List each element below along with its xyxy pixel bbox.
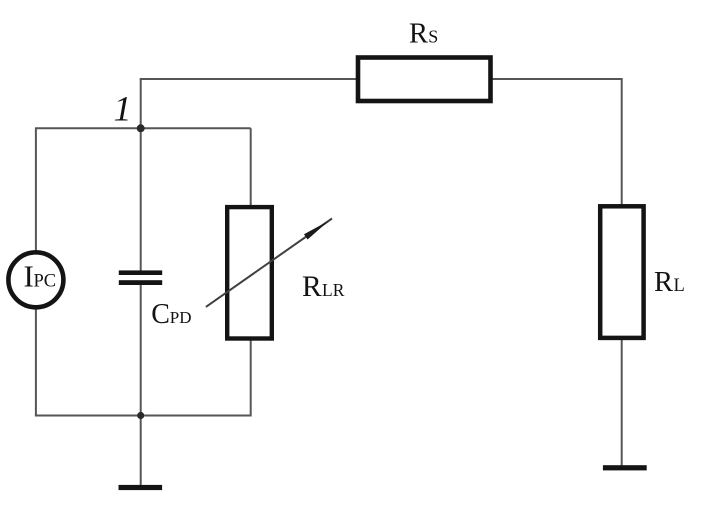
variable resistor RLR body bbox=[227, 207, 272, 338]
svg-text:PC: PC bbox=[34, 272, 57, 292]
wire: top rail left segment to Rs bbox=[140, 78, 357, 80]
wire: RLR branch vertical bottom bbox=[250, 339, 252, 417]
variable resistor RLR arrowhead bbox=[304, 221, 329, 240]
wire: node-1 horizontal rail bbox=[35, 127, 251, 129]
resistor RL body bbox=[600, 206, 643, 338]
svg-text:S: S bbox=[428, 27, 438, 47]
resistor RS body bbox=[358, 58, 491, 102]
svg-text:R: R bbox=[654, 267, 673, 298]
wire: top rail right segment from Rs bbox=[492, 78, 622, 80]
left ground symbol bbox=[119, 485, 163, 490]
wire: middle vertical from capacitor bottom plate to bottom rail bbox=[140, 283, 142, 416]
svg-text:R: R bbox=[409, 19, 428, 50]
wire: middle vertical from bottom rail to left ground bbox=[140, 416, 142, 486]
svg-text:1: 1 bbox=[114, 89, 132, 129]
capacitor CPD bottom plate bbox=[119, 280, 162, 285]
svg-text:LR: LR bbox=[322, 280, 345, 300]
wire: right vertical down to RL bbox=[621, 78, 623, 205]
bottom rail junction dot bbox=[137, 412, 144, 419]
wire: left vertical from node rail to current source top bbox=[35, 128, 37, 251]
node 1 junction dot bbox=[137, 124, 145, 132]
right ground symbol bbox=[603, 465, 647, 470]
capacitor CPD top plate bbox=[119, 270, 162, 275]
svg-text:PD: PD bbox=[170, 308, 192, 327]
svg-text:C: C bbox=[151, 299, 170, 330]
svg-text:I: I bbox=[24, 259, 34, 294]
wire: middle vertical from node 1 to capacitor top plate bbox=[140, 128, 142, 272]
variable resistor RLR arrow line bbox=[206, 219, 332, 307]
svg-text:L: L bbox=[674, 276, 685, 296]
wire: RLR branch vertical top bbox=[250, 128, 252, 206]
wire: right vertical from RL bottom to right ground bbox=[621, 339, 623, 466]
wire: left vertical from current source bottom to bottom rail bbox=[35, 309, 37, 416]
svg-text:R: R bbox=[302, 271, 322, 303]
wire: vertical stub from node 1 up to top rail bbox=[140, 79, 142, 128]
current source IPC circle bbox=[8, 252, 63, 307]
wire: bottom rail bbox=[35, 415, 251, 417]
